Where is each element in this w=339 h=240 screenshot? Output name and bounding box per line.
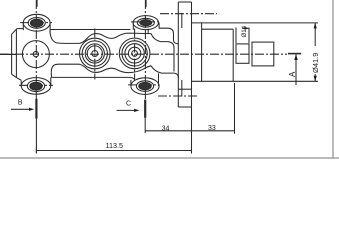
svg-text:34: 34 bbox=[162, 125, 170, 132]
svg-text:113.5: 113.5 bbox=[106, 141, 123, 150]
svg-text:33: 33 bbox=[208, 125, 216, 132]
svg-text:Ø41.9: Ø41.9 bbox=[311, 53, 320, 73]
svg-text:A: A bbox=[288, 71, 297, 77]
svg-text:Ø14: Ø14 bbox=[241, 25, 248, 37]
svg-text:C: C bbox=[126, 101, 131, 108]
svg-text:B: B bbox=[18, 100, 23, 107]
